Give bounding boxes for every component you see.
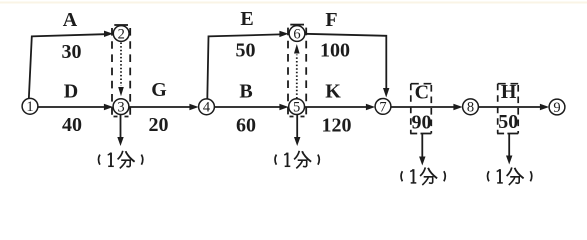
svg-text:6: 6 [293, 26, 300, 42]
node 8 [463, 99, 479, 116]
svg-text:5: 5 [293, 100, 300, 116]
arrowhead K into node7 [366, 104, 375, 110]
svg-text:A: A [63, 9, 78, 31]
arrowhead G into node4 [189, 104, 198, 110]
svg-text:4: 4 [203, 100, 211, 116]
label (1 fen) under node3 [99, 151, 143, 169]
node 7 [375, 99, 391, 116]
arrowhead E into node6 [279, 31, 288, 37]
wire C: node7 to node8 [391, 106, 454, 108]
svg-text:90: 90 [412, 112, 432, 134]
arrowhead D into node3 [104, 104, 113, 110]
node 6 [289, 26, 305, 43]
arrowhead A into node2 [104, 31, 113, 37]
svg-text:H: H [501, 81, 517, 103]
svg-text:D: D [64, 81, 78, 103]
svg-text:E: E [240, 8, 253, 30]
arrowhead down from box C [419, 157, 425, 166]
wire down from node5 [296, 115, 298, 138]
label (1 fen) under box H [488, 167, 532, 185]
arrowhead down from node3 [117, 137, 123, 146]
svg-text:9: 9 [553, 100, 560, 116]
arrowhead F into node7 [383, 88, 389, 98]
svg-text:40: 40 [62, 114, 82, 136]
wire D: node1 to node3 [38, 106, 105, 108]
wire A: node1 up then right to node2 [29, 34, 105, 99]
wire E: node4 up then right to node6 [207, 34, 280, 99]
arrowhead B into node5 [279, 104, 288, 110]
wire down from box H [508, 134, 510, 156]
wire G: node3 to node4 [129, 106, 190, 108]
svg-text:1: 1 [26, 99, 33, 115]
svg-text:8: 8 [467, 100, 474, 116]
svg-text:G: G [151, 79, 167, 101]
svg-text:F: F [325, 9, 337, 31]
wire B: node4 to node5 [214, 106, 280, 108]
node 1 [22, 98, 38, 115]
dotted arrow node5 up to node6 [294, 44, 300, 99]
node 5 [289, 99, 305, 116]
dashed box around nodes 6,5 [288, 25, 306, 117]
arrowhead C into node8 [453, 104, 462, 110]
svg-text:B: B [239, 81, 252, 103]
svg-text:30: 30 [62, 41, 82, 63]
svg-text:K: K [325, 81, 341, 103]
dashed box H [497, 84, 518, 134]
svg-text:3: 3 [117, 100, 124, 116]
svg-text:2: 2 [118, 26, 125, 42]
node 2 [113, 26, 129, 43]
wire F: node6 right then down to node7 [305, 34, 386, 89]
arrowhead H into node9 [540, 104, 549, 110]
dotted arrow node2 down to node3 [118, 43, 124, 97]
wire H: node8 to node9 [478, 106, 540, 108]
wire K: node5 to node7 [304, 106, 366, 108]
label (1 fen) under box C [401, 167, 445, 185]
dashed box around nodes 2,3 [112, 25, 130, 117]
arrowhead down from node5 [294, 137, 300, 146]
svg-text:50: 50 [498, 111, 518, 133]
label (1 fen) under node5 [275, 151, 319, 169]
wire down from node3 [120, 115, 122, 138]
svg-text:100: 100 [320, 40, 350, 62]
svg-text:60: 60 [236, 115, 256, 137]
svg-text:50: 50 [236, 40, 256, 62]
arrowhead down from box H [506, 156, 512, 165]
svg-text:20: 20 [149, 114, 169, 136]
svg-text:7: 7 [379, 99, 386, 115]
svg-text:120: 120 [322, 115, 352, 137]
svg-text:C: C [415, 82, 429, 104]
node 9 [549, 99, 565, 116]
node 4 [199, 99, 215, 116]
wire down from box C [421, 134, 423, 157]
dashed box C [410, 84, 431, 134]
node 3 [113, 99, 129, 116]
